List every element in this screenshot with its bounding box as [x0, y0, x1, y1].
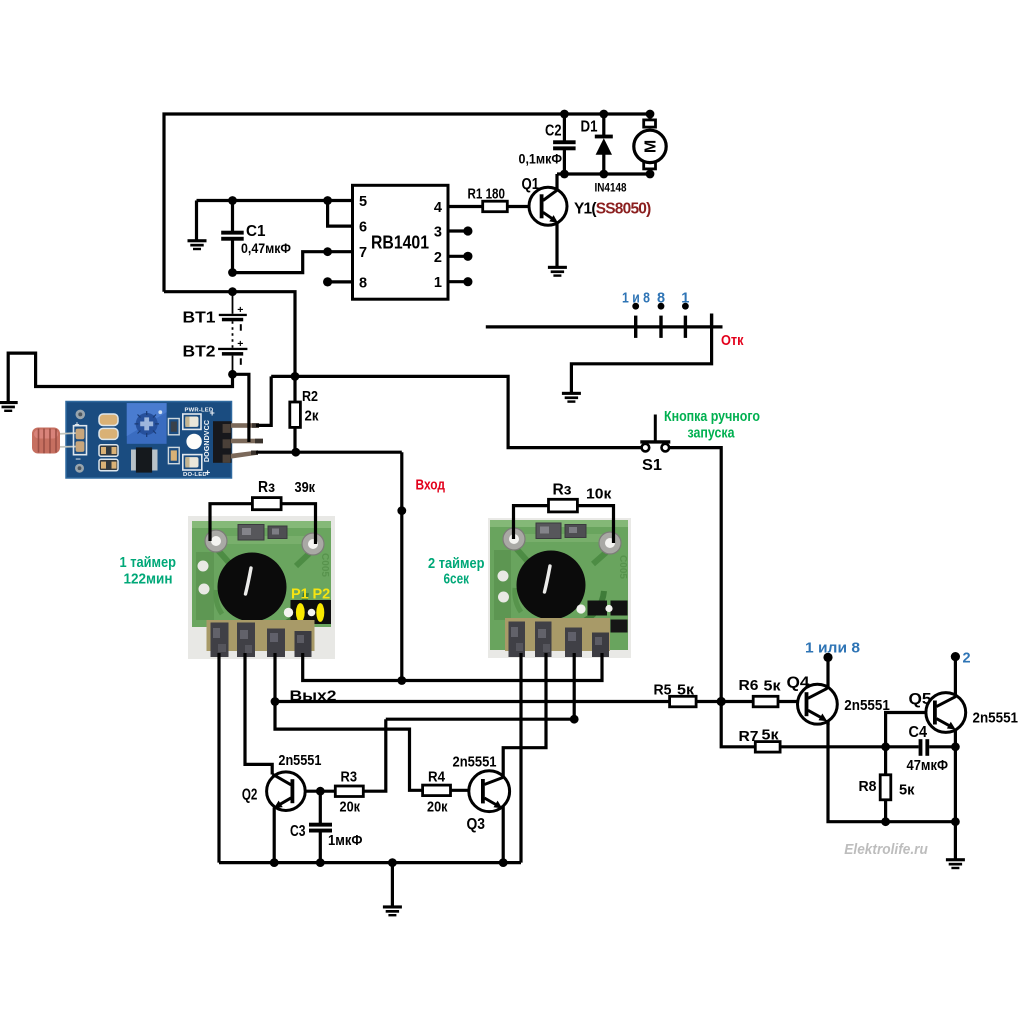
wire Vyh2 line to R5	[275, 700, 670, 703]
svg-text:запуска: запуска	[688, 426, 736, 442]
wire ground stub at C1 rail	[195, 201, 198, 240]
node Q5 emitter rail	[951, 817, 960, 826]
wire ground rail to pin 5	[197, 199, 353, 202]
node S1-R5-R6	[717, 697, 726, 706]
resistor R1	[483, 201, 508, 212]
switch S1	[640, 415, 670, 452]
svg-text:Q1: Q1	[522, 176, 540, 193]
svg-text:+: +	[237, 304, 243, 316]
svg-text:2: 2	[434, 250, 442, 266]
transistor Q2	[267, 772, 306, 863]
node motor top	[646, 110, 655, 119]
ground	[188, 239, 207, 250]
node selector 1i8	[632, 303, 639, 310]
resistor R2	[290, 402, 301, 427]
svg-text:Вход: Вход	[416, 477, 446, 493]
transistor Q1	[529, 174, 567, 266]
svg-text:122мин: 122мин	[124, 572, 173, 588]
node pin8 end	[323, 277, 332, 286]
ground	[946, 858, 965, 869]
wire C1 top lead	[231, 201, 234, 232]
wire Rz2 right lead into hole	[577, 506, 613, 543]
svg-text:C3: C3	[290, 823, 306, 840]
svg-text:Кнопка ручного: Кнопка ручного	[664, 409, 760, 425]
svg-text:20к: 20к	[427, 800, 448, 816]
wire R5 to node	[696, 700, 721, 703]
wire timer1 pin1 to ground rail	[217, 653, 220, 863]
wire timer1 pin4 to timer2 pin4	[303, 653, 602, 681]
svg-text:DOGNDVCC: DOGNDVCC	[203, 420, 211, 462]
wire bottom ground rail	[219, 861, 521, 864]
node Q3 emitter rail	[499, 858, 508, 867]
svg-text:8: 8	[657, 291, 665, 307]
svg-text:R5: R5	[654, 682, 672, 698]
wire C1 bottom lead to node	[231, 241, 234, 273]
capacitor C2	[553, 140, 576, 150]
wire motor bottom lead	[648, 169, 651, 175]
wire timer1 pin2 to Q2 collector	[245, 653, 272, 775]
svg-text:R1 180: R1 180	[468, 187, 506, 203]
capacitor C3	[309, 823, 332, 833]
svg-text:+: +	[237, 338, 243, 350]
svg-text:1 таймер: 1 таймер	[120, 555, 177, 571]
wire V+ top rail from BT1+ up and across to motor	[164, 114, 650, 292]
svg-text:+: +	[210, 408, 215, 418]
svg-text:39к: 39к	[295, 480, 316, 496]
wire R3 right riser	[363, 719, 386, 791]
svg-text:0,1мкФ: 0,1мкФ	[519, 151, 563, 167]
node pin2 end	[463, 252, 472, 261]
resistor R5	[670, 696, 697, 707]
wire node to R6	[721, 700, 753, 703]
svg-text:Q5: Q5	[909, 691, 932, 708]
wire Rz1 left lead into hole	[210, 504, 252, 541]
wire BT2- to left ground	[8, 353, 232, 402]
wire R1 to Q1 base	[507, 205, 541, 208]
node Q5 collector terminal	[951, 652, 960, 661]
svg-text:2n5551: 2n5551	[278, 753, 321, 769]
svg-text:BT2: BT2	[183, 344, 216, 361]
svg-text:2 таймер: 2 таймер	[428, 556, 485, 572]
wire R2 top lead	[293, 376, 296, 402]
svg-text:C1: C1	[246, 223, 266, 240]
svg-text:6: 6	[359, 220, 367, 236]
svg-text:R3: R3	[341, 769, 358, 785]
svg-text:1мкФ: 1мкФ	[328, 833, 363, 849]
node R2 top	[291, 372, 300, 381]
node C1 top	[228, 196, 237, 205]
wire pin 6 branch	[328, 201, 353, 227]
wire sensor DO to R2 bottom and input	[256, 451, 402, 454]
node C3 bottom rail	[316, 858, 325, 867]
svg-text:10к: 10к	[586, 487, 612, 503]
wire pin 3 stub	[448, 229, 468, 232]
resistor Rz2	[549, 499, 578, 512]
svg-text:C005: C005	[319, 553, 330, 577]
resistor Rz1	[252, 498, 281, 510]
wire R8 bottom lead	[884, 800, 887, 822]
node BT2 bottom	[228, 370, 237, 379]
node Q2 emitter rail	[270, 858, 279, 867]
wire R2 bottom lead	[293, 427, 296, 452]
timer module 2 photo	[488, 518, 631, 658]
node selector 1	[682, 303, 689, 310]
svg-text:S1: S1	[642, 457, 662, 474]
svg-text:6сек: 6сек	[444, 572, 470, 588]
battery BT1	[219, 292, 247, 331]
svg-text:RB1401: RB1401	[371, 232, 429, 253]
wire C4 right lead	[929, 745, 955, 748]
node ground stub rail	[388, 858, 397, 867]
wire timer2 pin2 to Q3 collector	[503, 653, 546, 777]
transistor Q4	[798, 657, 838, 725]
wire timer2 pin1 to ground rail	[519, 653, 522, 863]
wire Q5 emitter to ground	[954, 729, 957, 859]
node pin7	[323, 247, 332, 256]
wire R7 to C4 and Q5 net	[780, 745, 919, 748]
resistor R7	[755, 742, 780, 753]
svg-text:1: 1	[681, 291, 689, 307]
wire BT1+ rail to R2 top	[164, 292, 295, 377]
wire D1 leads	[602, 114, 605, 174]
node D1 bottom	[599, 170, 608, 179]
wire pin 8 stub	[328, 280, 353, 283]
svg-text:3: 3	[434, 225, 442, 241]
node C4 Q5 emitter	[951, 742, 960, 751]
svg-text:Q3: Q3	[467, 816, 486, 833]
capacitor C4	[919, 739, 930, 756]
svg-text:Отк: Отк	[721, 333, 744, 349]
wire sensor VCC pin riser	[256, 376, 271, 425]
resistor R8	[880, 775, 891, 800]
svg-text:1: 1	[434, 275, 442, 291]
svg-text:2n5551: 2n5551	[844, 698, 890, 714]
capacitor C1	[221, 231, 244, 241]
svg-text:2к: 2к	[305, 408, 320, 424]
wire S1 to output node	[669, 448, 721, 702]
svg-text:BT1: BT1	[183, 310, 216, 327]
battery BT2	[218, 321, 247, 374]
ground	[0, 401, 18, 412]
svg-text:Q4: Q4	[787, 674, 810, 691]
node pin6 branch	[323, 196, 332, 205]
svg-text:5к: 5к	[764, 679, 782, 695]
wire pin 2 stub	[448, 255, 468, 258]
wire C3 bottom lead	[319, 832, 322, 863]
resistor R3	[335, 786, 363, 797]
svg-text:7: 7	[359, 245, 367, 261]
wire Q2 base to R3	[294, 790, 335, 793]
svg-text:+: +	[205, 468, 210, 478]
svg-text:R2: R2	[302, 389, 318, 405]
node pin3 end	[463, 226, 472, 235]
wire timer2 output to R3 riser	[386, 653, 574, 719]
wire R4 to Q3 base	[451, 789, 482, 792]
svg-text:0,47мкФ: 0,47мкФ	[241, 240, 291, 256]
ground	[383, 905, 402, 916]
node BT1 top	[228, 287, 237, 296]
svg-text:1 и 8: 1 и 8	[622, 291, 650, 307]
transistor Q3	[469, 771, 510, 863]
node C2 top	[560, 110, 569, 119]
wire selector tick 2	[659, 316, 662, 338]
svg-text:R6: R6	[739, 678, 759, 694]
svg-text:Elektrolife.ru: Elektrolife.ru	[844, 841, 928, 858]
svg-text:2n5551: 2n5551	[973, 711, 1019, 727]
wire C3 top lead	[319, 791, 322, 823]
svg-text:R4: R4	[428, 769, 445, 785]
svg-text:Вых2: Вых2	[290, 689, 337, 705]
ground	[548, 266, 567, 277]
wire node drop to R7	[721, 702, 755, 747]
wire pin 7 jog to C1 bottom	[233, 252, 353, 273]
wire V+ distribution to S1	[271, 376, 641, 447]
wire selector tick Otk	[710, 314, 713, 327]
svg-text:Rз: Rз	[258, 479, 275, 496]
node timer2 pin3	[570, 715, 579, 724]
svg-text:R8: R8	[859, 779, 877, 795]
svg-text:2n5551: 2n5551	[453, 754, 497, 770]
wire Rz1 right lead into hole	[281, 504, 315, 544]
wire selector common line	[486, 325, 723, 328]
node C2 bottom	[560, 170, 569, 179]
node selector 8	[658, 303, 665, 310]
svg-text:+: +	[75, 419, 80, 429]
diode D1	[595, 135, 613, 155]
svg-text:P2: P2	[313, 587, 331, 603]
node Q4 collector terminal	[823, 653, 832, 662]
sensor module U2 photoresistor board photo	[32, 402, 263, 479]
svg-text:8: 8	[359, 275, 367, 291]
svg-text:2: 2	[963, 650, 971, 666]
wire Rz2 left lead into hole	[514, 506, 549, 539]
svg-text:5к: 5к	[762, 728, 780, 744]
svg-text:1 или 8: 1 или 8	[805, 641, 860, 657]
svg-text:5к: 5к	[677, 682, 695, 698]
wire selector tick 1	[634, 316, 637, 338]
node motor bottom	[646, 170, 655, 179]
svg-text:Y1(SS8050): Y1(SS8050)	[574, 201, 651, 218]
svg-text:Rз: Rз	[553, 482, 572, 499]
node R7 C4 R8	[881, 742, 890, 751]
motor M1	[634, 120, 666, 169]
svg-text:C005: C005	[617, 555, 628, 579]
node C1 bottom	[228, 268, 237, 277]
node pin1 end	[463, 277, 472, 286]
wire Q4 emitter to bottom right rail	[828, 721, 955, 822]
svg-text:D1: D1	[581, 119, 598, 136]
node input mid	[397, 506, 406, 515]
node Q2 base C3	[316, 787, 325, 796]
svg-text:20к: 20к	[340, 800, 361, 816]
svg-text:P1: P1	[291, 587, 309, 603]
svg-text:5к: 5к	[899, 782, 915, 798]
svg-text:C4: C4	[909, 724, 928, 741]
resistor R6	[753, 696, 778, 707]
svg-text:R7: R7	[739, 729, 759, 745]
wire selector tick 3	[684, 316, 687, 338]
svg-text:C2: C2	[545, 123, 562, 140]
node Vyh2 left	[271, 697, 280, 706]
wire timer1 pin3 to R4	[275, 653, 423, 790]
wire Otk leg to ground	[571, 327, 711, 393]
wire pin 4 to R1	[448, 205, 483, 208]
wire BT2- to sensor GND pin	[233, 374, 249, 442]
node D1 top	[599, 110, 608, 119]
IC U1 RB1401	[353, 185, 449, 299]
wire input riser (Vhod)	[400, 452, 403, 680]
wire R6 to Q4 base	[778, 700, 805, 703]
node input bottom	[397, 676, 406, 685]
svg-text:IN4148: IN4148	[595, 183, 628, 195]
svg-text:DO-LED: DO-LED	[183, 472, 207, 478]
transistor Q5	[926, 657, 966, 733]
ground	[562, 392, 581, 403]
node R8 bottom rail	[881, 817, 890, 826]
wire C2 leads	[563, 114, 566, 174]
wire pin 1 stub	[448, 280, 468, 283]
timer module 1 photo	[188, 516, 335, 659]
svg-text:5: 5	[359, 194, 367, 210]
svg-text:4: 4	[434, 200, 442, 216]
wire R8 top lead	[884, 747, 887, 775]
svg-text:47мкФ: 47мкФ	[907, 758, 949, 774]
node R2 bottom	[291, 448, 300, 457]
wire ground stub bottom	[391, 863, 394, 906]
wire Q5 base tap	[886, 713, 934, 747]
svg-text:Q2: Q2	[242, 787, 258, 804]
resistor R4	[423, 785, 451, 796]
svg-text:M: M	[643, 140, 660, 153]
wire motor node rail	[557, 172, 650, 175]
